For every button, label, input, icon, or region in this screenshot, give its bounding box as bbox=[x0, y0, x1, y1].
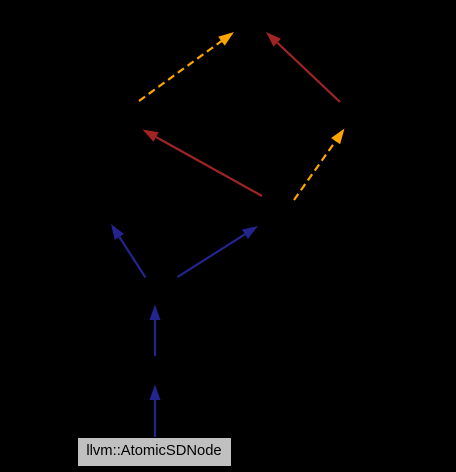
edge E4: dashed orange template arrow from center node to right node bbox=[294, 129, 345, 201]
edge E5: solid blue public-inheritance arrow from SDNode to FoldingSetNode (left) bbox=[111, 224, 146, 278]
edge E6: solid blue public-inheritance arrow from SDNode to ilist_node (right) bbox=[178, 226, 259, 277]
edge E1: dashed orange template arrow from node ilist_node to top node bbox=[139, 32, 234, 101]
svg-text:llvm::AtomicSDNode: llvm::AtomicSDNode bbox=[86, 443, 221, 459]
edge E8: solid blue public-inheritance arrow from llvm::AtomicSDNode to MemSDNode bbox=[150, 385, 161, 438]
node llvm::AtomicSDNode (highlighted current node, grey fill) bbox=[78, 438, 231, 466]
edge E3: solid dark-red private-inheritance arrow from center node to left node bbox=[143, 130, 263, 197]
edge E7: solid blue public-inheritance arrow from MemSDNode to SDNode bbox=[150, 305, 161, 357]
edge E2: solid dark-red private-inheritance arrow from right node to top node bbox=[266, 32, 340, 102]
